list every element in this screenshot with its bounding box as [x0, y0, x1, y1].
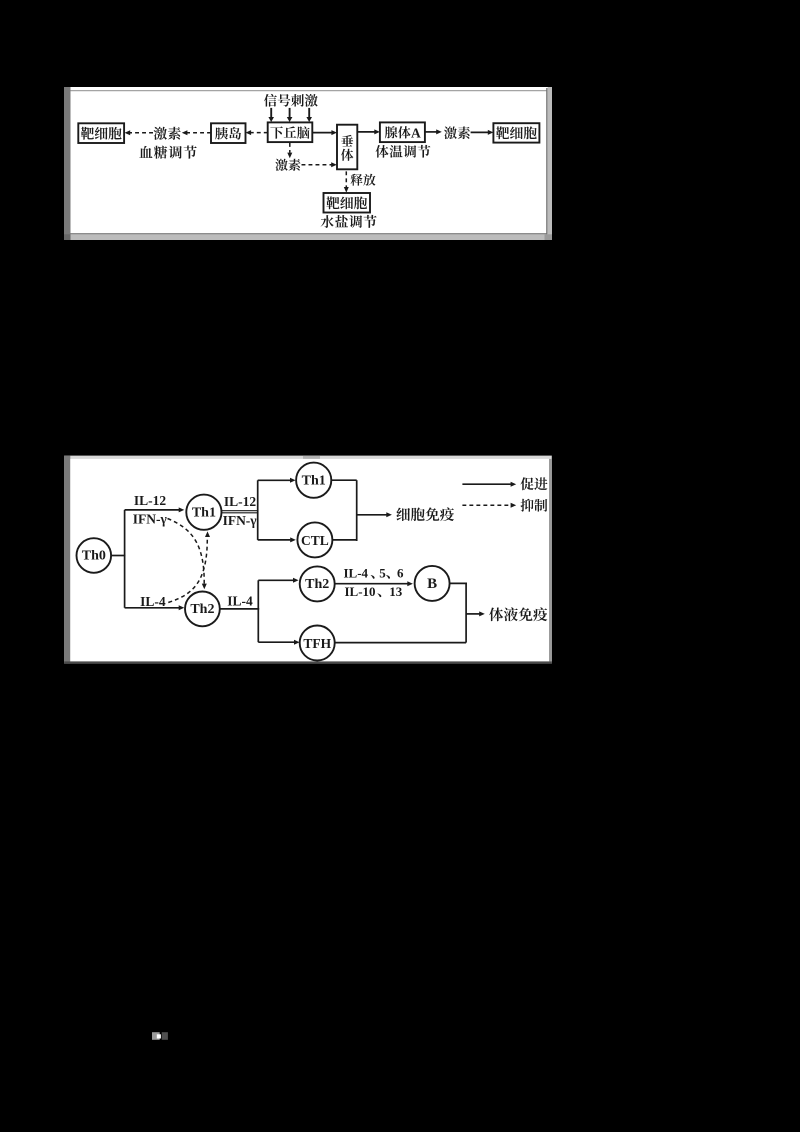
text 促进	[520, 477, 547, 490]
dashed arrow 下丘脑 to 胰岛	[251, 132, 268, 134]
cell TFH	[300, 626, 335, 661]
text IL-10、13	[345, 584, 403, 599]
svg-text:13: 13	[389, 584, 403, 599]
svg-text:A: A	[411, 125, 421, 140]
svg-text:Th1: Th1	[302, 473, 326, 488]
wire B right	[450, 582, 467, 584]
small grey mark bottom left	[152, 1032, 160, 1040]
cell Th1 left	[186, 495, 221, 530]
text 体温调节	[376, 145, 431, 158]
dashed inhibition arc Th2 to Th1	[168, 537, 207, 603]
svg-text:TFH: TFH	[303, 636, 331, 651]
dashed arrow 激素 to 靶细胞	[130, 132, 153, 134]
text 血糖调节	[139, 146, 197, 159]
box 垂体 pituitary	[337, 125, 357, 170]
cell CTL	[297, 522, 332, 557]
cell B	[415, 566, 450, 601]
text 释放	[351, 174, 376, 186]
box 靶细胞 right	[493, 123, 539, 142]
text 抑制	[521, 499, 548, 512]
bracket to Th1/CTL	[257, 480, 259, 540]
svg-text:IL-4: IL-4	[344, 566, 369, 581]
svg-text:Th2: Th2	[190, 602, 214, 617]
legend solid arrow	[462, 483, 511, 485]
svg-text:IL-10: IL-10	[345, 584, 376, 599]
box 胰岛 islet	[211, 123, 246, 143]
wire Th0 to junction	[111, 555, 125, 557]
svg-text:IL-12: IL-12	[224, 494, 257, 509]
text 胰岛	[215, 127, 241, 140]
text 垂 stacked	[341, 135, 353, 146]
cell Th2 left	[185, 592, 220, 627]
panel 2 background frame	[64, 456, 552, 664]
box 下丘脑 hypothalamus	[268, 122, 313, 142]
svg-text:IL-4: IL-4	[140, 594, 166, 609]
bracket right of Th1/CTL	[331, 479, 356, 481]
cell Th0	[77, 538, 112, 573]
cell Th1 top	[296, 463, 331, 498]
vertical merge wire	[465, 583, 467, 642]
svg-text:Th1: Th1	[192, 505, 216, 520]
bracket to Th2/TFH	[257, 580, 259, 642]
arrow to 细胞免疫	[357, 514, 387, 516]
text 靶细胞 right	[496, 126, 537, 139]
text 激素 right	[444, 126, 470, 139]
text 下丘脑	[270, 126, 309, 138]
cell Th2 right	[300, 566, 335, 601]
text 激素 below	[275, 159, 300, 171]
arrow to 体液免疫	[466, 613, 479, 615]
panel 1 background frame	[64, 87, 552, 240]
dashed arrow 胰岛 to 激素	[187, 132, 211, 134]
text 激素 mid	[154, 127, 181, 140]
dashed arrow 下丘脑 down to 激素	[289, 143, 291, 153]
dashed arrow 垂体 down to 靶细胞	[345, 171, 347, 187]
wire Th2 right to bracket	[220, 608, 259, 610]
svg-text:IFN-γ: IFN-γ	[223, 513, 258, 528]
wire TFH right	[335, 642, 466, 644]
text 体 stacked	[341, 149, 353, 161]
svg-text:Th2: Th2	[305, 577, 329, 592]
svg-text:5: 5	[379, 566, 386, 581]
text 体液免疫	[489, 607, 547, 621]
solid arrow 激素 to 靶细胞 right	[471, 131, 489, 133]
solid arrow 下丘脑 to 垂体	[312, 132, 332, 134]
svg-text:IL-12: IL-12	[134, 493, 167, 508]
svg-text:IL-4: IL-4	[227, 594, 253, 609]
svg-text:B: B	[427, 576, 437, 592]
legend dashed arrow	[462, 504, 511, 506]
text 靶细胞 bottom	[326, 196, 367, 209]
text 腺体	[385, 126, 411, 138]
dashed arrow 激素 to 垂体	[302, 164, 332, 166]
svg-text:CTL: CTL	[301, 533, 329, 548]
dashed inhibition arc Th1 to Th2	[168, 519, 205, 584]
text 细胞免疫	[396, 507, 454, 521]
box 靶细胞 left	[78, 123, 124, 143]
label 信号刺激	[264, 94, 318, 107]
svg-text:6: 6	[397, 566, 404, 581]
double wire Th1 right	[222, 510, 258, 512]
svg-text:Th0: Th0	[82, 549, 106, 564]
stimulus arrows into hypothalamus	[270, 108, 272, 117]
solid arrow 腺体A to 激素	[425, 131, 437, 133]
junction vertical	[124, 510, 126, 608]
text 靶细胞 left	[81, 127, 122, 140]
arrow junction to Th1	[125, 509, 179, 511]
box 靶细胞 bottom	[324, 193, 371, 213]
arrow Th2 to B	[335, 583, 408, 585]
arrow junction to Th2	[125, 607, 179, 609]
box 腺体A gland	[380, 122, 425, 142]
svg-text:IFN-γ: IFN-γ	[133, 512, 168, 527]
text IL-4、5、6	[344, 566, 405, 581]
text 水盐调节	[321, 215, 377, 228]
solid arrow 垂体 to 腺体A	[357, 131, 374, 133]
